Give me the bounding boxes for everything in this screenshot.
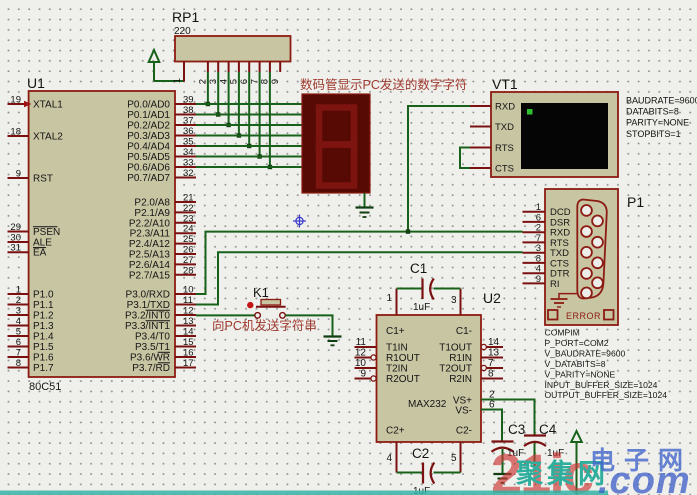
wire P0 row pin 35 to display — [196, 145, 302, 147]
svg-text:BAUDRATE=9600: BAUDRATE=9600 — [626, 96, 697, 106]
svg-text:220: 220 — [174, 26, 191, 37]
svg-text:10: 10 — [183, 285, 194, 296]
svg-text:6: 6 — [16, 337, 21, 348]
svg-text:11: 11 — [183, 295, 193, 306]
pin 18 XTAL2 of U1 — [8, 127, 64, 143]
svg-text:12: 12 — [355, 348, 367, 359]
svg-text:7: 7 — [488, 358, 494, 369]
pin 6 DSR of P1 — [523, 212, 571, 228]
svg-text:7: 7 — [16, 348, 21, 359]
pin 11 T1IN of U2 — [355, 337, 408, 354]
svg-text:TXD: TXD — [495, 122, 514, 133]
pin RXD of VT1 — [470, 102, 515, 113]
svg-text:VS-: VS- — [455, 406, 472, 417]
svg-text:37: 37 — [183, 116, 194, 127]
svg-text:COMPIM: COMPIM — [545, 328, 580, 338]
svg-text:STOPBITS=1: STOPBITS=1 — [626, 129, 681, 139]
pin 11 P3.1/TXD of U1 — [127, 295, 196, 311]
resistor pack RP1 body — [172, 9, 291, 62]
pin 16 P3.6/WR of U1 — [130, 348, 196, 364]
svg-text:P1: P1 — [627, 194, 644, 210]
pin 3 TXD of P1 — [523, 243, 570, 259]
virtual terminal VT1 body — [491, 76, 618, 177]
wire RP1 pin 5 to P0 bus row — [237, 72, 241, 138]
ground symbol inside P1 — [551, 294, 578, 307]
svg-text:P3.0/RXD: P3.0/RXD — [126, 290, 170, 301]
wire VS+ to C4 — [481, 400, 535, 436]
pin 30 ALE of U1 — [8, 233, 53, 249]
pin 13 R1IN of U2 — [449, 348, 503, 365]
svg-text:K1: K1 — [253, 285, 269, 300]
wire VS- to C3 — [481, 410, 502, 442]
svg-text:4: 4 — [386, 453, 392, 464]
svg-text:P0.1/AD1: P0.1/AD1 — [127, 110, 170, 121]
wire P0 row pin 38 to display — [196, 114, 302, 116]
pin 22 P2.1/A9 of U1 — [134, 203, 196, 219]
pin 2 VS+ of U2 — [453, 390, 495, 407]
pin 27 P2.6/A14 of U1 — [129, 255, 196, 271]
svg-text:14: 14 — [183, 327, 194, 338]
pin 36 P0.3/AD3 of U1 — [127, 126, 196, 142]
pin 38 P0.1/AD1 of U1 — [127, 105, 196, 121]
svg-text:8: 8 — [488, 369, 494, 380]
pin 29 PSEN of U1 — [8, 222, 61, 238]
svg-text:9: 9 — [270, 79, 281, 84]
svg-text:P0.3/AD3: P0.3/AD3 — [127, 131, 170, 142]
svg-text:P1.3: P1.3 — [33, 321, 54, 332]
svg-text:T2IN: T2IN — [386, 364, 408, 375]
svg-text:8: 8 — [16, 358, 21, 369]
wire P0 row pin 39 to display — [196, 103, 302, 105]
pin 31 EA of U1 — [8, 243, 47, 259]
svg-text:9: 9 — [536, 274, 541, 285]
svg-text:INPUT_BUFFER_SIZE=1024: INPUT_BUFFER_SIZE=1024 — [545, 380, 658, 390]
pin 1 of RP1 — [172, 62, 184, 84]
pin 10 P3.0/RXD of U1 — [126, 285, 196, 301]
capacitor C1 — [397, 261, 461, 313]
svg-text:EA: EA — [33, 248, 47, 259]
svg-text:PSEN: PSEN — [33, 227, 60, 238]
svg-text:C2-: C2- — [456, 426, 472, 437]
svg-text:C2: C2 — [412, 446, 429, 461]
svg-text:P2.4/A12: P2.4/A12 — [129, 239, 171, 250]
svg-text:P1.5: P1.5 — [33, 342, 54, 353]
svg-text:R2OUT: R2OUT — [386, 374, 420, 385]
capacitor C4 — [524, 422, 564, 459]
svg-text:C1: C1 — [410, 261, 427, 276]
svg-text:P1.2: P1.2 — [33, 311, 54, 322]
svg-text:RP1: RP1 — [172, 9, 199, 25]
svg-text:39: 39 — [183, 95, 194, 106]
P1 properties text — [545, 328, 668, 401]
pin 1 DCD of P1 — [523, 202, 571, 218]
svg-text:P2.2/A10: P2.2/A10 — [129, 218, 171, 229]
svg-text:3: 3 — [451, 295, 457, 306]
pin 13 P3.3/INT1 of U1 — [125, 316, 196, 332]
svg-text:38: 38 — [183, 105, 194, 116]
svg-text:25: 25 — [183, 234, 194, 245]
svg-text:OUTPUT_BUFFER_SIZE=1024: OUTPUT_BUFFER_SIZE=1024 — [545, 390, 668, 400]
svg-text:28: 28 — [183, 265, 194, 276]
wire RP1 pin 8 to P0 bus row — [268, 72, 272, 169]
svg-text:P2.0/A8: P2.0/A8 — [134, 198, 170, 209]
pin 7 T2OUT of U2 — [439, 358, 503, 375]
pin 5 C2- of U2 — [451, 442, 461, 473]
svg-text:1: 1 — [172, 78, 183, 83]
svg-text:MAX232: MAX232 — [408, 399, 447, 410]
pin 8 P1.7 of U1 — [8, 358, 55, 374]
power symbol arrow near C4 — [571, 431, 582, 494]
svg-text:VT1: VT1 — [492, 76, 518, 92]
svg-text:P1.0: P1.0 — [33, 290, 54, 301]
svg-text:14: 14 — [488, 337, 500, 348]
svg-text:P3.1/TXD: P3.1/TXD — [127, 300, 170, 311]
pin 17 P3.7/RD of U1 — [132, 358, 196, 374]
svg-text:1uF: 1uF — [507, 448, 524, 459]
pin 3 C1- of U2 — [451, 289, 461, 316]
pin 7 of RP1 — [249, 62, 260, 85]
ground below display — [356, 193, 374, 217]
svg-text:5: 5 — [16, 327, 21, 338]
wire RP1 pin 6 to P0 bus row — [247, 72, 251, 148]
svg-text:18: 18 — [10, 127, 21, 138]
svg-text:U1: U1 — [27, 75, 45, 91]
origin marker crosshair — [293, 215, 306, 228]
svg-text:数码管显示PC发送的数字字符: 数码管显示PC发送的数字字符 — [300, 77, 467, 92]
svg-text:12: 12 — [183, 306, 194, 317]
pin 23 P2.2/A10 of U1 — [129, 213, 196, 229]
svg-text:R2IN: R2IN — [449, 374, 472, 385]
wire VT1 RTS to CTS loopback — [460, 148, 470, 169]
wire RP1 pin 4 to P0 bus row — [226, 72, 230, 127]
pin 33 P0.6/AD6 of U1 — [127, 158, 196, 174]
pin 1 P1.0 of U1 — [8, 285, 55, 301]
svg-text:T1OUT: T1OUT — [439, 343, 472, 354]
svg-text:DATABITS=8: DATABITS=8 — [626, 107, 679, 117]
wire P0 row pin 37 to display — [196, 124, 302, 126]
clock input arrow at XTAL1 — [24, 101, 32, 108]
svg-text:2: 2 — [16, 295, 21, 306]
microcontroller U1 80C51 body — [27, 75, 175, 393]
pin 10 T2IN of U2 — [355, 358, 408, 375]
svg-text:C4: C4 — [539, 422, 557, 437]
svg-text:31: 31 — [10, 243, 21, 254]
svg-text:P3.2/INT0: P3.2/INT0 — [125, 311, 170, 322]
wire P3.0/RXD net: U1 pin10 up and across to VT1 RXD and P1 RXD — [196, 106, 523, 294]
svg-text:P0.4/AD4: P0.4/AD4 — [127, 142, 170, 153]
svg-text:35: 35 — [183, 137, 194, 148]
svg-text:P1.1: P1.1 — [33, 300, 54, 311]
pin 2 RXD of P1 — [523, 223, 571, 239]
pin 37 P0.2/AD2 of U1 — [127, 116, 196, 132]
wire power arrow to RP1 pin 1 — [154, 80, 184, 82]
pin 4 P1.3 of U1 — [8, 316, 55, 332]
svg-text:1: 1 — [16, 285, 21, 296]
svg-text:V_BAUDRATE=9600: V_BAUDRATE=9600 — [545, 348, 626, 358]
svg-text:13: 13 — [488, 348, 500, 359]
svg-text:XTAL1: XTAL1 — [33, 100, 63, 111]
svg-text:16: 16 — [183, 348, 194, 359]
svg-text:T1IN: T1IN — [386, 343, 408, 354]
svg-text:80C51: 80C51 — [29, 381, 61, 393]
pin 3 of RP1 — [208, 62, 219, 85]
pin 6 P1.5 of U1 — [8, 337, 55, 353]
pin 5 of RP1 — [229, 62, 240, 85]
pin 8 R2IN of U2 — [449, 369, 503, 386]
svg-text:P2.1/A9: P2.1/A9 — [134, 208, 170, 219]
svg-text:15: 15 — [183, 337, 194, 348]
svg-text:3: 3 — [16, 306, 21, 317]
svg-text:V_DATABITS=8: V_DATABITS=8 — [545, 359, 606, 369]
svg-text:P3.6/WR: P3.6/WR — [130, 353, 170, 364]
pin 4 C2+ of U2 — [386, 442, 396, 473]
svg-text:26: 26 — [183, 245, 194, 256]
svg-text:V_PARITY=NONE: V_PARITY=NONE — [545, 369, 616, 379]
svg-text:P2.6/A14: P2.6/A14 — [129, 260, 171, 271]
svg-text:13: 13 — [183, 316, 194, 327]
svg-text:17: 17 — [183, 358, 194, 369]
wire RP1 pin 2 to P0 bus row — [206, 72, 210, 106]
wire C3 to ground — [502, 449, 504, 474]
svg-text:T2OUT: T2OUT — [439, 364, 472, 375]
pin 34 P0.5/AD5 of U1 — [127, 147, 196, 163]
svg-text:1: 1 — [386, 293, 392, 304]
DB9 connector drawing inside P1 — [577, 200, 607, 299]
power symbol VCC arrow at RP1 pin 1 — [149, 50, 160, 81]
wire P0 row pin 33 to display — [196, 166, 302, 168]
pin 2 P1.1 of U1 — [8, 295, 55, 311]
svg-text:CTS: CTS — [495, 164, 514, 175]
svg-text:P2.7/A15: P2.7/A15 — [129, 270, 171, 281]
svg-text:32: 32 — [183, 168, 194, 179]
pin CTS of VT1 — [470, 164, 514, 175]
svg-text:10: 10 — [355, 358, 367, 369]
svg-text:C2+: C2+ — [386, 426, 405, 437]
capacitor C3 — [492, 422, 526, 459]
7-segment display — [302, 94, 370, 193]
wire C4 down — [534, 443, 536, 471]
svg-text:24: 24 — [183, 224, 194, 235]
svg-text:P0.5/AD5: P0.5/AD5 — [127, 152, 170, 163]
svg-text:P0.7/AD7: P0.7/AD7 — [127, 173, 170, 184]
pin 7 RTS of P1 — [523, 233, 569, 249]
wire P3.1/TXD net: U1 pin11 up and across to P1 TXD — [196, 252, 523, 304]
ground at K1 — [324, 337, 342, 346]
svg-text:向PC机发送字符串: 向PC机发送字符串 — [212, 318, 317, 333]
svg-text:1uF: 1uF — [413, 486, 430, 495]
pin TXD of VT1 — [470, 122, 514, 133]
pin 8 CTS of P1 — [523, 253, 570, 269]
svg-text:1uF: 1uF — [547, 448, 564, 459]
ground below C3 — [494, 474, 512, 483]
svg-text:27: 27 — [183, 255, 194, 266]
svg-text:ERROR: ERROR — [566, 311, 601, 321]
svg-text:P3.4/T0: P3.4/T0 — [135, 332, 170, 343]
pin 19 XTAL1 of U1 — [8, 95, 64, 111]
pin 9 RST of U1 — [8, 169, 54, 185]
pin 39 P0.0/AD0 of U1 — [127, 95, 196, 111]
pin 15 P3.5/T1 of U1 — [135, 337, 196, 353]
svg-text:1uF: 1uF — [413, 302, 430, 313]
svg-text:5: 5 — [451, 453, 457, 464]
svg-text:P2.5/A13: P2.5/A13 — [129, 250, 171, 261]
svg-text:34: 34 — [183, 147, 194, 158]
VT1 settings text — [626, 96, 697, 139]
svg-text:R1OUT: R1OUT — [386, 353, 420, 364]
svg-text:23: 23 — [183, 213, 194, 224]
pin 35 P0.4/AD4 of U1 — [127, 137, 196, 153]
pin 4 of RP1 — [218, 62, 229, 85]
svg-text:P0.6/AD6: P0.6/AD6 — [127, 163, 170, 174]
pin 21 P2.0/A8 of U1 — [134, 193, 196, 209]
wire RP1 pin 7 to P0 bus row — [257, 72, 261, 159]
svg-text:C3: C3 — [508, 422, 525, 437]
pin 26 P2.5/A13 of U1 — [129, 245, 196, 261]
svg-text:9: 9 — [360, 369, 366, 380]
pin 24 P2.3/A11 of U1 — [130, 224, 196, 240]
wire P0 row pin 34 to display — [196, 156, 302, 158]
svg-text:R1IN: R1IN — [449, 353, 472, 364]
svg-text:21: 21 — [183, 193, 194, 204]
push button K1 — [247, 285, 286, 318]
svg-text:P3.3/INT1: P3.3/INT1 — [125, 321, 170, 332]
svg-text:P3.5/T1: P3.5/T1 — [135, 342, 170, 353]
wire P3.2/INT0 to button K1 — [196, 314, 255, 316]
wire RP1 pin 3 to P0 bus row — [216, 72, 220, 117]
svg-text:33: 33 — [183, 158, 194, 169]
svg-text:C1+: C1+ — [386, 326, 405, 337]
svg-text:22: 22 — [183, 203, 194, 214]
svg-text:19: 19 — [10, 95, 21, 106]
pin 6 VS- of U2 — [455, 400, 495, 417]
svg-text:U2: U2 — [483, 290, 501, 306]
pin RTS of VT1 — [470, 143, 514, 154]
pin 8 of RP1 — [260, 62, 271, 85]
wire K1 to ground — [286, 315, 333, 336]
svg-text:29: 29 — [10, 222, 21, 233]
pin 14 T1OUT of U2 — [439, 337, 503, 354]
pin 5 P1.4 of U1 — [8, 327, 55, 343]
svg-text:RST: RST — [33, 174, 53, 185]
svg-text:P1.7: P1.7 — [33, 363, 54, 374]
svg-text:P0.2/AD2: P0.2/AD2 — [127, 121, 170, 132]
pin 9 R2OUT of U2 — [355, 369, 420, 386]
pin 14 P3.4/T0 of U1 — [135, 327, 196, 343]
pin 3 P1.2 of U1 — [8, 306, 55, 322]
MAX232 U2 body — [377, 290, 502, 442]
svg-text:P3.7/RD: P3.7/RD — [132, 363, 170, 374]
pin 1 C1+ of U2 — [386, 289, 396, 316]
svg-text:RXD: RXD — [495, 102, 515, 113]
pin 7 P1.6 of U1 — [8, 348, 55, 364]
svg-text:P0.0/AD0: P0.0/AD0 — [127, 100, 170, 111]
pin 12 R1OUT of U2 — [355, 348, 420, 365]
pin 9 RI of P1 — [523, 274, 560, 290]
pin 28 P2.7/A15 of U1 — [129, 265, 196, 281]
svg-text:C1-: C1- — [456, 326, 472, 337]
svg-text:RTS: RTS — [495, 143, 514, 154]
pin 32 P0.7/AD7 of U1 — [127, 168, 196, 184]
svg-text:P1.6: P1.6 — [33, 353, 54, 364]
svg-text:36: 36 — [183, 126, 194, 137]
pin 2 of RP1 — [198, 62, 209, 85]
svg-text:11: 11 — [356, 337, 367, 348]
svg-text:RI: RI — [550, 279, 560, 290]
svg-text:P2.3/A11: P2.3/A11 — [130, 229, 171, 240]
pin 6 of RP1 — [239, 62, 250, 85]
svg-text:4: 4 — [16, 316, 21, 327]
svg-text:P_PORT=COM2: P_PORT=COM2 — [545, 338, 609, 348]
pin 4 DTR of P1 — [523, 264, 570, 280]
wire P0 row pin 36 to display — [196, 135, 302, 137]
svg-text:XTAL2: XTAL2 — [33, 132, 63, 143]
pin 9 of RP1 — [270, 62, 281, 85]
pin 12 P3.2/INT0 of U1 — [125, 306, 196, 322]
ERROR indicator row of P1 — [548, 310, 614, 321]
COM port P1 body — [545, 189, 644, 325]
svg-text:P1.4: P1.4 — [33, 332, 54, 343]
pin 25 P2.4/A12 of U1 — [129, 234, 196, 250]
svg-text:9: 9 — [16, 169, 21, 180]
svg-text:PARITY=NONE: PARITY=NONE — [626, 118, 689, 128]
capacitor C2 — [397, 446, 461, 495]
